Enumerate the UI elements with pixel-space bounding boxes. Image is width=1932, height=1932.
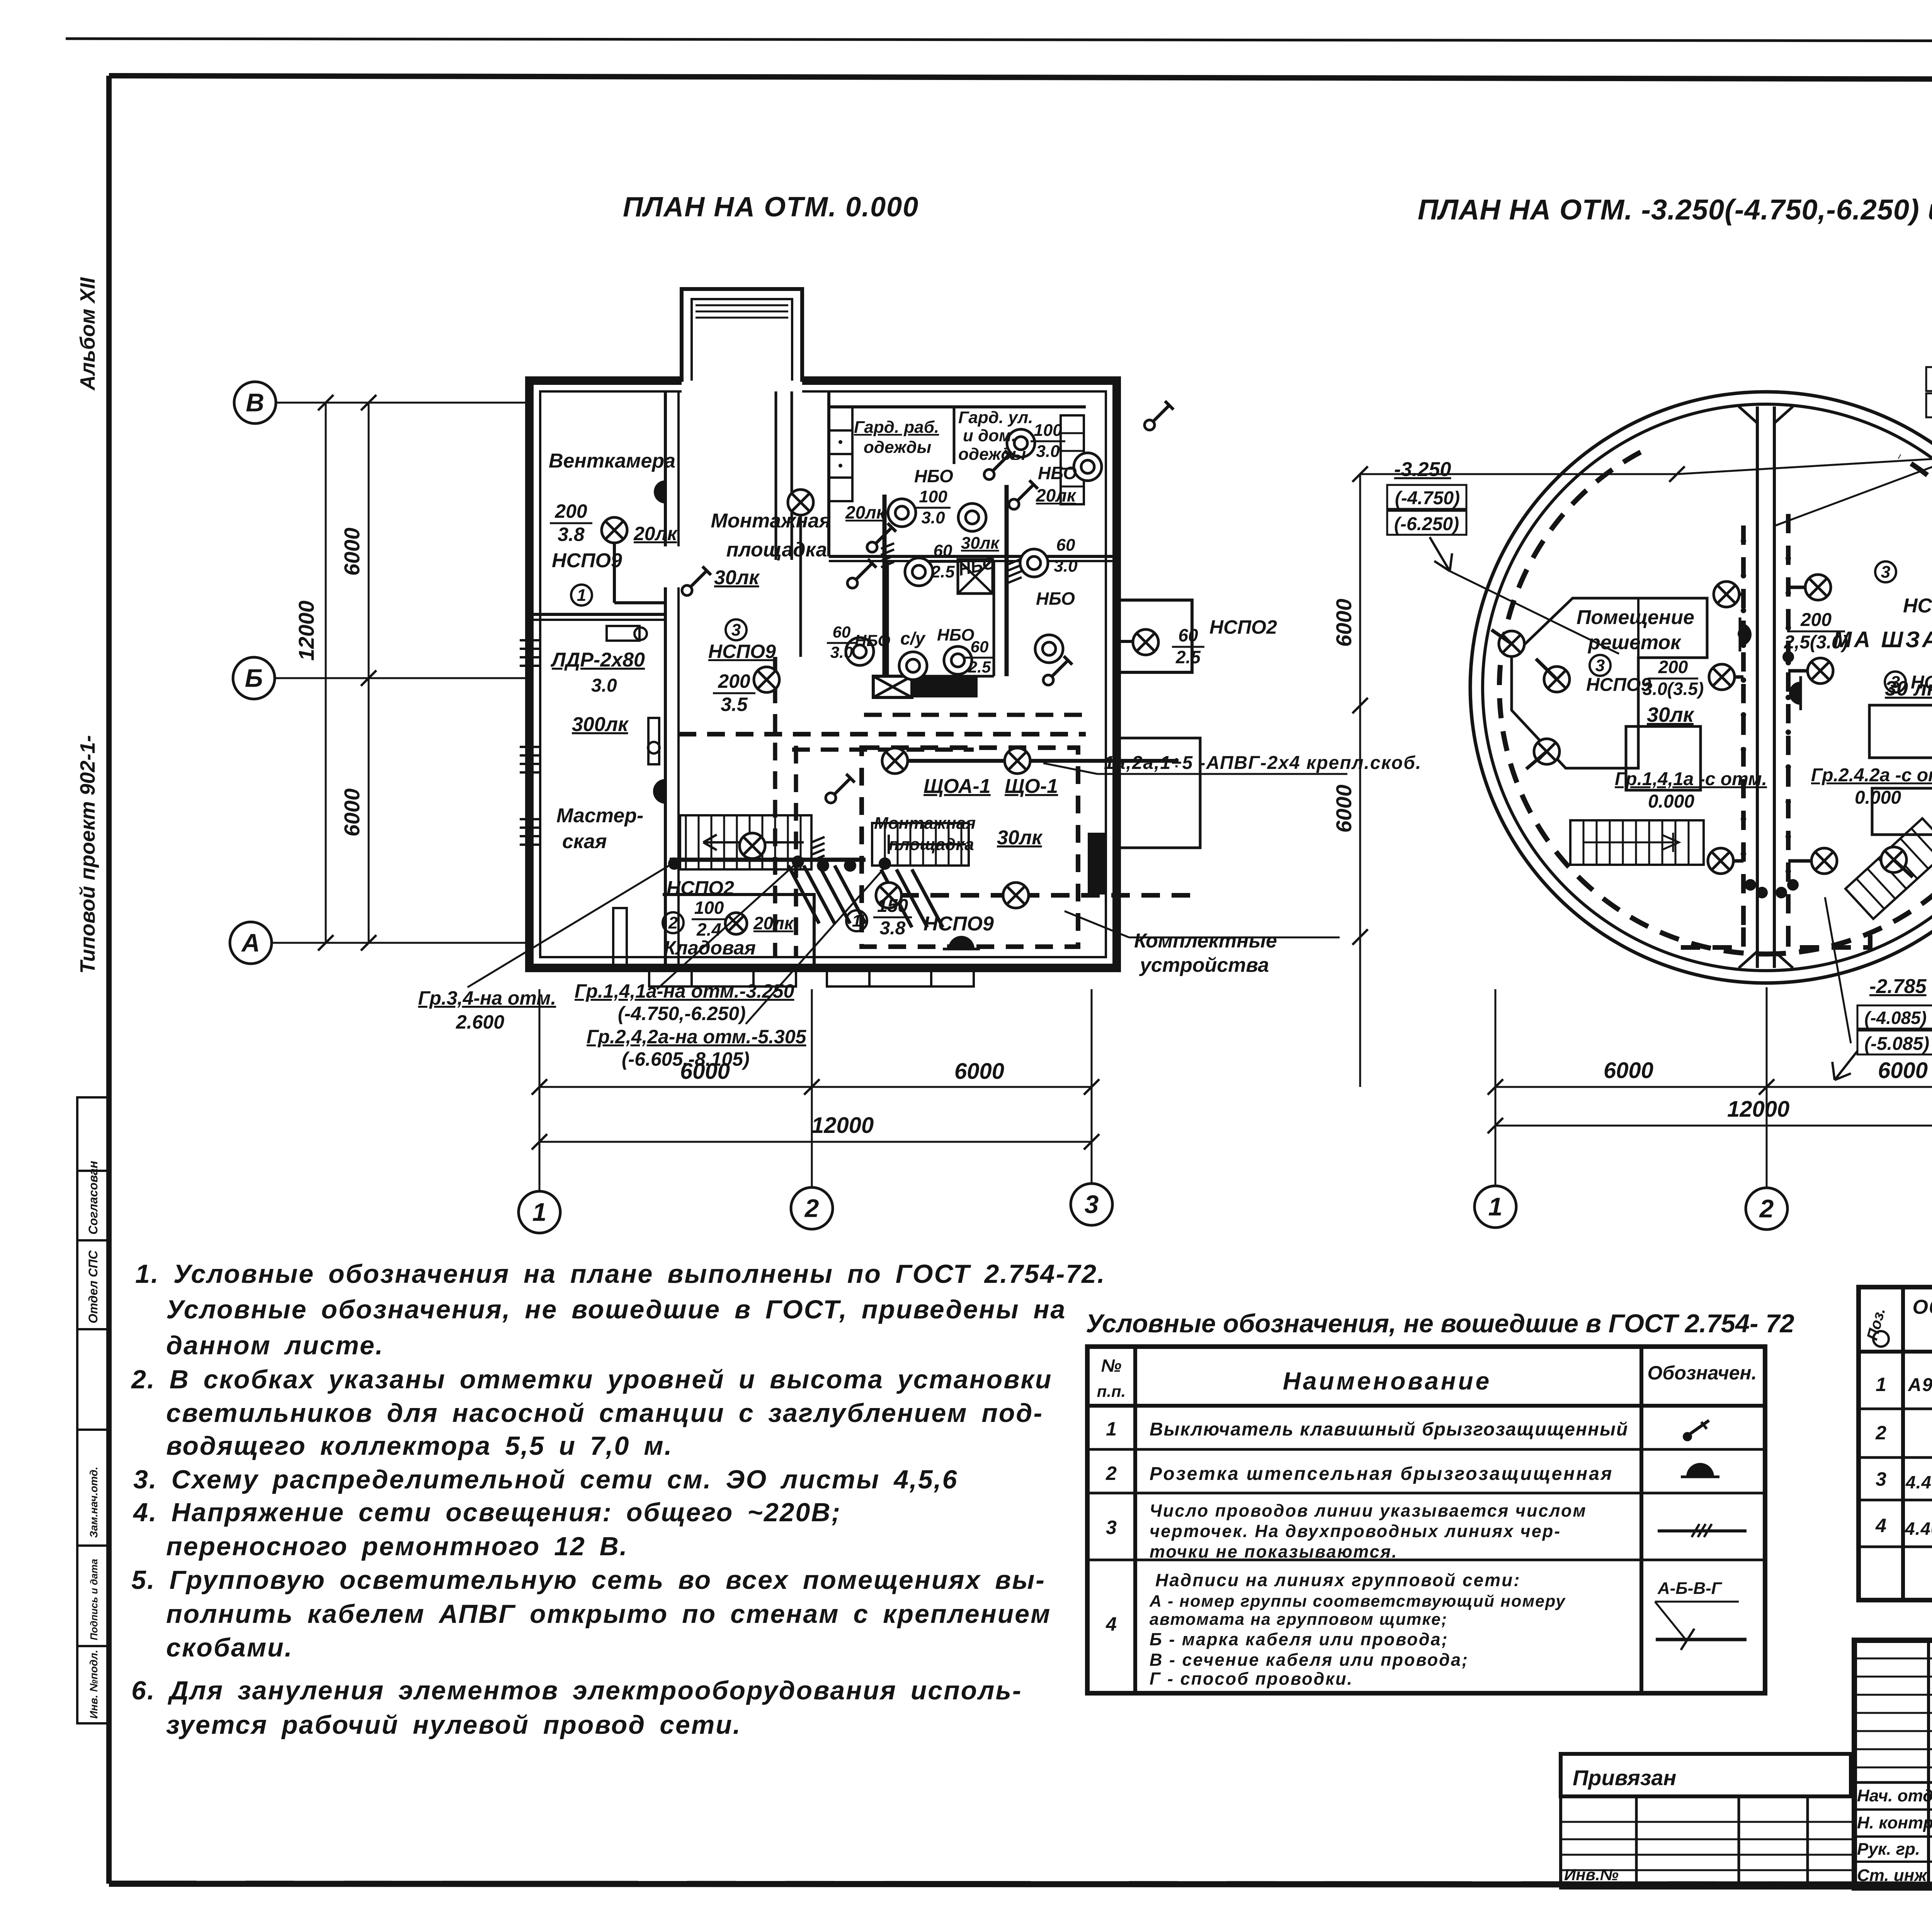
svg-text:150: 150	[877, 896, 908, 916]
svg-text:3: 3	[1595, 656, 1605, 675]
svg-text:1: 1	[577, 586, 586, 605]
svg-text:с/у: с/у	[900, 628, 926, 648]
svg-text:НСПО2: НСПО2	[667, 877, 734, 899]
svg-text:А92.25,26,41исп.2: А92.25,26,41исп.2	[1908, 1375, 1932, 1395]
svg-text:6000: 6000	[1604, 1058, 1653, 1083]
spec table frame	[1859, 1287, 1932, 1600]
svg-text:Согласован: Согласован	[86, 1161, 100, 1235]
privyazan table	[1561, 1796, 1855, 1888]
svg-text:3.0: 3.0	[830, 643, 853, 662]
pos 3 circle	[726, 619, 747, 640]
wall pier right	[1088, 833, 1107, 895]
svg-text:Отдел СПС: Отдел СПС	[86, 1250, 100, 1323]
svg-text:НБО: НБО	[1036, 588, 1075, 609]
svg-text:А: А	[241, 928, 260, 957]
svg-text:Привязан: Привязан	[1573, 1765, 1676, 1790]
socket bottom	[943, 936, 980, 949]
top wall window hatch (vent)	[693, 313, 694, 313]
wire trunk vertical left	[773, 657, 777, 958]
garderob left lockers	[828, 407, 852, 430]
junction dots center	[1745, 879, 1756, 891]
svg-text:3. Схему распределительной с: 3. Схему распределительной сети см. ЭО л…	[133, 1465, 958, 1494]
svg-text:30лк: 30лк	[997, 827, 1043, 849]
svg-text:20лк: 20лк	[633, 523, 678, 544]
heavy dashed ring wiring	[1499, 452, 1766, 954]
svg-text:Условные обозначения, не вошед: Условные обозначения, не вошедшие в ГОСТ…	[1086, 1309, 1794, 1338]
svg-text:6000: 6000	[340, 788, 364, 837]
vertical dim line	[1359, 474, 1361, 1087]
interior wall ventkamera bottom	[529, 613, 665, 616]
bottom porch marks	[649, 968, 796, 986]
svg-text:3: 3	[1876, 1468, 1886, 1490]
svg-text:одежды: одежды	[958, 445, 1026, 464]
right equipment rect B	[1872, 788, 1932, 835]
svg-text:НСПО9: НСПО9	[708, 641, 776, 662]
svg-text:ПЛАН НА ОТМ. -3.250(-4.750,-: ПЛАН НА ОТМ. -3.250(-4.750,-6.250) и-5,3…	[1418, 194, 1932, 226]
machine hall lamps right of wall	[1805, 575, 1831, 600]
sanuzel walls	[886, 561, 889, 676]
svg-text:30 лк: 30 лк	[1885, 677, 1932, 700]
axis 2c	[1746, 1188, 1787, 1230]
signer rows	[1854, 1808, 1932, 1811]
stamp left tall column	[1927, 1640, 1930, 1888]
svg-text:Надписи на линиях групповой: Надписи на линиях групповой сети:	[1155, 1570, 1521, 1590]
svg-text:одежды: одежды	[864, 438, 931, 457]
svg-text:ЩО-1: ЩО-1	[1005, 775, 1058, 798]
lamp schoa	[882, 748, 908, 774]
machine hall lamps left of wall	[1714, 582, 1739, 607]
svg-text:3.5: 3.5	[721, 694, 748, 715]
svg-text:НСПО9: НСПО9	[1903, 595, 1932, 617]
svg-text:Нач. отд: Нач. отд	[1857, 1786, 1932, 1805]
lamp scho	[1005, 748, 1030, 774]
svg-text:2.5: 2.5	[930, 562, 955, 581]
axis 2	[791, 1187, 833, 1229]
privyazan box	[1561, 1754, 1851, 1796]
heavy dashed wall runs	[1741, 526, 1746, 927]
svg-text:светильников для насосной с: светильников для насосной станции с загл…	[166, 1398, 1043, 1428]
outer shell circle	[1470, 392, 1932, 983]
garderob ceiling lamps	[888, 499, 916, 527]
svg-text:площадка: площадка	[726, 539, 827, 561]
svg-text:ПЛАН НА ОТМ. 0.000: ПЛАН НА ОТМ. 0.000	[623, 192, 919, 223]
svg-text:1: 1	[1876, 1374, 1886, 1395]
svg-text:Обозначение или: Обозначение или	[1913, 1296, 1932, 1318]
svg-text:Гард. раб.: Гард. раб.	[854, 418, 939, 437]
bottom axis verticals	[1495, 989, 1497, 1185]
interior wall kladovaya	[663, 895, 814, 968]
svg-text:Гр.1,4,1а -с отм.: Гр.1,4,1а -с отм.	[1615, 769, 1767, 789]
bottom axis verticals	[539, 989, 541, 1191]
tower corridor walls	[775, 391, 777, 560]
svg-text:НСПО2: НСПО2	[1209, 616, 1277, 638]
svg-text:12000: 12000	[1727, 1097, 1789, 1122]
svg-text:3.0(3.5): 3.0(3.5)	[1643, 679, 1704, 699]
svg-text:2. В скобках указаны отметк: 2. В скобках указаны отметки уровней и в…	[131, 1365, 1052, 1394]
svg-text:Н. контр: Н. контр	[1857, 1813, 1932, 1832]
axis 1c	[1475, 1186, 1516, 1228]
svg-text:-3.250: -3.250	[1394, 458, 1451, 481]
frame border left	[106, 76, 112, 1884]
svg-text:Условные обозначения, не воше: Условные обозначения, не вошедшие в ГОСТ…	[166, 1295, 1066, 1324]
top-left horizontal dim	[1360, 473, 1677, 475]
svg-text:(-5.085): (-5.085)	[1864, 1034, 1929, 1054]
tower protrusion walls	[682, 289, 802, 382]
dim line 12000	[1495, 1125, 1932, 1127]
grate room inner tick	[1637, 598, 1639, 658]
svg-text:В: В	[246, 388, 264, 417]
grounding hatches	[881, 543, 894, 567]
svg-text:Мастер-: Мастер-	[556, 804, 643, 827]
group leaders bottom	[468, 864, 672, 987]
svg-text:Типовой проект 902-1-: Типовой проект 902-1-	[76, 735, 99, 974]
svg-text:Ст. инж: Ст. инж	[1857, 1866, 1928, 1885]
equipment rect on wall 1	[607, 626, 639, 641]
spray arrows bottom junction	[788, 866, 819, 923]
legend row lines	[1087, 1448, 1765, 1451]
svg-text:2: 2	[1105, 1463, 1117, 1484]
svg-text:НСПО9: НСПО9	[552, 549, 622, 572]
svg-text:0.000: 0.000	[1648, 791, 1694, 812]
svg-text:устройства: устройства	[1139, 954, 1269, 976]
svg-text:6000: 6000	[954, 1059, 1004, 1084]
garderob left wall	[827, 391, 830, 556]
svg-text:1. Условные обозначения на: 1. Условные обозначения на плане выполне…	[135, 1259, 1106, 1289]
svg-text:1: 1	[1106, 1418, 1117, 1440]
svg-text:Альбом XII: Альбом XII	[76, 277, 99, 391]
svg-text:3.0: 3.0	[1036, 442, 1060, 461]
svg-text:данном листе.: данном листе.	[166, 1331, 384, 1360]
garderob block bottom wall	[829, 555, 1117, 558]
svg-text:(-6.605,-8.105): (-6.605,-8.105)	[622, 1048, 750, 1070]
svg-text:точки не показываются.: точки не показываются.	[1150, 1542, 1398, 1561]
wire trunk horizontal dashed	[864, 713, 1086, 717]
svg-text:3.0: 3.0	[591, 675, 617, 696]
svg-text:3.0: 3.0	[921, 508, 945, 527]
pier rect masterskaya	[613, 908, 627, 967]
grate room polygon	[1512, 598, 1707, 768]
vertical dim lines left	[325, 403, 327, 943]
pos3 + nspo9 + 200/4.0	[1885, 672, 1906, 692]
svg-text:НБО: НБО	[914, 466, 953, 486]
svg-text:ЛДР-2х80: ЛДР-2х80	[550, 649, 645, 671]
svg-text:300лк: 300лк	[572, 713, 629, 736]
axis B1	[233, 657, 275, 699]
interior wall ventkamera right	[664, 391, 667, 546]
lamp nspo9 center	[754, 667, 779, 692]
svg-text:Б: Б	[245, 663, 263, 692]
svg-text:скобами.: скобами.	[166, 1633, 293, 1662]
svg-text:20лк: 20лк	[753, 913, 794, 933]
svg-text:100: 100	[694, 898, 724, 918]
svg-text:200: 200	[554, 500, 587, 522]
svg-text:200: 200	[1800, 610, 1832, 630]
svg-text:Г - способ проводки.: Г - способ проводки.	[1150, 1669, 1353, 1689]
equipment rect on wall 2	[648, 718, 659, 764]
svg-text:Гр.2.4.2а -с отм.: Гр.2.4.2а -с отм.	[1811, 765, 1932, 786]
svg-text:и дом.: и дом.	[963, 426, 1016, 445]
center dividing wall	[1756, 406, 1759, 968]
wire row bottom dashed	[900, 893, 1192, 898]
svg-text:Инв.№: Инв.№	[1564, 1866, 1619, 1884]
svg-text:20лк: 20лк	[845, 502, 886, 522]
axis A	[230, 922, 272, 964]
lamp bottom right	[1003, 883, 1029, 908]
svg-text:В - сечение кабеля или пров: В - сечение кабеля или провода;	[1150, 1650, 1469, 1670]
svg-text:(-4.750): (-4.750)	[1395, 488, 1460, 509]
svg-text:200: 200	[1658, 657, 1688, 677]
svg-text:6. Для зануления элементов: 6. Для зануления элементов электрооборуд…	[131, 1676, 1022, 1705]
svg-text:решеток: решеток	[1587, 631, 1682, 654]
svg-text:4.407-233-001,исп.1: 4.407-233-001,исп.1	[1905, 1519, 1932, 1539]
svg-text:Зам.нач.отд.: Зам.нач.отд.	[88, 1467, 100, 1538]
svg-text:100: 100	[919, 487, 947, 506]
svg-text:4: 4	[1105, 1613, 1117, 1635]
svg-text:5. Групповую осветительную с: 5. Групповую осветительную сеть во всех …	[131, 1565, 1046, 1595]
panel assembly bus	[873, 676, 912, 697]
svg-text:Подпись и дата: Подпись и дата	[88, 1559, 100, 1640]
svg-text:1: 1	[532, 1197, 547, 1226]
lamp bottom left	[876, 883, 901, 908]
svg-text:№: №	[1101, 1355, 1122, 1376]
lamp stair	[740, 833, 765, 859]
lamp montage top	[788, 490, 813, 515]
svg-text:(-6.250): (-6.250)	[1394, 514, 1459, 534]
svg-text:МА ШЗАЛ: МА ШЗАЛ	[1833, 627, 1932, 652]
svg-text:полнить кабелем АПВГ открыт: полнить кабелем АПВГ открыто по стенам с…	[166, 1599, 1051, 1629]
svg-text:НСПО9: НСПО9	[1586, 675, 1651, 695]
axis 1	[519, 1191, 560, 1233]
svg-text:Гард. ул.: Гард. ул.	[958, 408, 1033, 427]
leader komplekt	[1065, 911, 1129, 937]
duct shaft crossed box	[958, 560, 993, 594]
svg-text:Розетка штепсельная брызгозащ: Розетка штепсельная брызгозащищенная	[1150, 1464, 1613, 1484]
legend symbol switch	[1683, 1420, 1709, 1441]
svg-text:Венткамера: Венткамера	[549, 450, 675, 472]
svg-text:Б - марка кабеля или провод: Б - марка кабеля или провода;	[1150, 1629, 1449, 1649]
svg-text:зуется рабочий нулевой пров: зуется рабочий нулевой провод сети.	[166, 1710, 742, 1740]
switches	[682, 566, 711, 595]
svg-text:Гр.1,4,1а-на отм.-3.250: Гр.1,4,1а-на отм.-3.250	[575, 980, 794, 1002]
pos 1 circle	[571, 585, 592, 605]
spec col pos	[1901, 1287, 1905, 1600]
left stair	[1570, 820, 1704, 865]
wire riser garderob right	[1005, 485, 1009, 676]
pos2+frac bottom	[663, 912, 684, 933]
svg-text:4.407-233-001,исп.1: 4.407-233-001,исп.1	[1905, 1472, 1932, 1492]
perimeter lamps	[1544, 667, 1570, 692]
pos3 + nspo9 + 200/3.0(3.5) left	[1590, 655, 1611, 676]
inner wall face	[540, 391, 1106, 957]
frame border bottom	[109, 1884, 1932, 1885]
svg-text:2.5: 2.5	[968, 658, 991, 676]
svg-text:2.600: 2.600	[456, 1011, 504, 1033]
svg-text:6000: 6000	[1332, 599, 1356, 647]
svg-text:3: 3	[1106, 1517, 1117, 1538]
svg-text:4. Напряжение сети освещения: 4. Напряжение сети освещения: общего ~22…	[133, 1498, 841, 1527]
inner shell circle	[1483, 404, 1932, 971]
svg-text:4: 4	[1875, 1515, 1886, 1536]
socket ventkamera	[654, 475, 665, 509]
svg-text:12000: 12000	[294, 600, 318, 661]
svg-text:6000: 6000	[1332, 784, 1356, 833]
stair flight	[680, 815, 811, 869]
junction cluster bottom center	[668, 857, 680, 870]
svg-text:переносного ремонтного 12: переносного ремонтного 12 В.	[166, 1532, 628, 1561]
svg-text:2.4: 2.4	[696, 919, 721, 939]
garderob right locker band	[1061, 415, 1084, 504]
svg-text:0.000: 0.000	[1855, 787, 1901, 808]
svg-text:3: 3	[731, 621, 741, 639]
dim line 6000 6000	[1495, 1086, 1932, 1088]
svg-text:100: 100	[1034, 421, 1062, 440]
socket domes	[1740, 617, 1752, 651]
right equipment rect A	[1869, 705, 1932, 758]
wire row lamps sholk	[908, 759, 1179, 763]
svg-text:Инв. №подл.: Инв. №подл.	[88, 1650, 100, 1719]
tower inner lines	[692, 299, 792, 381]
svg-text:60: 60	[1178, 625, 1198, 645]
svg-text:ская: ская	[562, 830, 607, 853]
svg-text:водящего коллектора 5,5 и: водящего коллектора 5,5 и 7,0 м.	[166, 1431, 673, 1461]
svg-text:Наименование: Наименование	[1283, 1367, 1492, 1395]
svg-text:60: 60	[971, 638, 989, 656]
montage area dashed rect	[862, 748, 1078, 947]
lamp annex right	[1117, 640, 1133, 643]
svg-text:3: 3	[1085, 1190, 1099, 1218]
garderob divider	[953, 407, 956, 464]
svg-text:Комплектные: Комплектные	[1134, 930, 1277, 952]
svg-text:черточек. На двухпроводных л: черточек. На двухпроводных линиях чер-	[1150, 1521, 1561, 1541]
komplekt ustroystva annex outline	[1117, 738, 1200, 848]
right diagonal stair	[1845, 818, 1932, 919]
svg-text:30лк: 30лк	[714, 566, 760, 589]
svg-text:2: 2	[1875, 1422, 1886, 1444]
legend col line 1	[1133, 1347, 1137, 1693]
dim line 6000 6000	[539, 1086, 1092, 1088]
svg-text:60: 60	[1056, 536, 1075, 554]
svg-text:2.5: 2.5	[1175, 647, 1201, 667]
legend symbol socket	[1681, 1463, 1719, 1477]
svg-text:6000: 6000	[1878, 1058, 1928, 1083]
wire riser garderob left	[883, 495, 887, 676]
svg-text:60: 60	[833, 623, 851, 641]
svg-text:1а,2а,1÷5 -АПВГ-2х4 крепл.скоб: 1а,2а,1÷5 -АПВГ-2х4 крепл.скоб.	[1104, 753, 1422, 773]
svg-text:НБО: НБО	[855, 631, 890, 650]
leader cable note	[1043, 763, 1097, 774]
svg-text:(-4.085): (-4.085)	[1864, 1008, 1927, 1028]
svg-text:200: 200	[718, 670, 750, 692]
svg-text:п.п.: п.п.	[1097, 1382, 1126, 1400]
svg-text:площадка: площадка	[889, 835, 974, 854]
dim line 12000	[539, 1141, 1092, 1143]
svg-text:3.0: 3.0	[1054, 556, 1078, 575]
axis 3	[1071, 1184, 1112, 1225]
legend symbol wire ticks	[1658, 1529, 1747, 1532]
svg-text:Монтажная: Монтажная	[874, 814, 976, 833]
stamp small rows top	[1854, 1658, 1932, 1660]
montage stair hatch	[872, 823, 969, 866]
svg-text:-2.785: -2.785	[1869, 975, 1927, 998]
svg-text:6000: 6000	[340, 527, 364, 576]
svg-text:ЩОА-1: ЩОА-1	[923, 775, 991, 798]
svg-text:Рук. гр.: Рук. гр.	[1857, 1840, 1920, 1859]
pos1 150/3.8 nspo9	[846, 910, 867, 931]
svg-text:12000: 12000	[811, 1113, 874, 1138]
axis B2	[234, 382, 276, 423]
svg-text:Обозначен.: Обозначен.	[1647, 1362, 1757, 1384]
heavy wire along stair	[670, 858, 866, 862]
svg-text:Монтажная: Монтажная	[711, 510, 831, 532]
svg-text:НБО: НБО	[1038, 463, 1077, 483]
pos3 top	[1875, 561, 1896, 582]
svg-text:20лк: 20лк	[1036, 485, 1077, 505]
svg-text:Выключатель клавишный брызго: Выключатель клавишный брызгозащищенный	[1150, 1419, 1628, 1440]
socket masterskaya	[653, 774, 665, 809]
frame border top	[109, 76, 1932, 80]
top-right annex (sanuzel block)	[1117, 600, 1192, 672]
svg-text:НСПО9: НСПО9	[923, 913, 994, 935]
left row axis lines	[276, 402, 529, 404]
stamp outer frame	[1854, 1640, 1932, 1888]
lamp sanuzel right	[1133, 629, 1158, 655]
svg-text:3: 3	[1881, 563, 1890, 582]
svg-text:Число проводов линии указывае: Число проводов линии указывается числом	[1150, 1501, 1587, 1520]
svg-text:2: 2	[668, 913, 678, 932]
svg-text:2: 2	[804, 1194, 819, 1222]
svg-text:3.8: 3.8	[880, 918, 906, 939]
svg-text:Гр.2,4,2а-на отм.-5.305: Гр.2,4,2а-на отм.-5.305	[587, 1026, 807, 1048]
garderob block top wall	[829, 405, 1086, 408]
legend table frame	[1087, 1347, 1765, 1693]
wire dots along wall	[1741, 538, 1746, 544]
svg-text:(-4.750,-6.250): (-4.750,-6.250)	[618, 1003, 746, 1024]
svg-text:1: 1	[852, 912, 861, 930]
svg-text:2: 2	[1759, 1194, 1774, 1223]
svg-text:30лк: 30лк	[1647, 703, 1695, 726]
svg-text:автомата на групповом щитке;: автомата на групповом щитке;	[1150, 1610, 1447, 1629]
sheet outer edge top	[66, 39, 1932, 42]
svg-text:1: 1	[1488, 1192, 1503, 1221]
left equipment rect	[1626, 726, 1701, 790]
legend header row line	[1087, 1404, 1765, 1408]
lamp ventkamera	[602, 517, 627, 543]
exterior wall outline	[529, 381, 1117, 968]
spec header line	[1859, 1350, 1932, 1354]
svg-text:30лк: 30лк	[961, 534, 1000, 553]
left margin stamp strip	[77, 1097, 109, 1723]
svg-text:А-Б-В-Г: А-Б-В-Г	[1657, 1579, 1723, 1598]
spec row lines	[1859, 1408, 1932, 1410]
legend col line 2	[1639, 1347, 1643, 1693]
svg-text:3.8: 3.8	[558, 524, 585, 545]
svg-text:Гр.3,4-на отм.: Гр.3,4-на отм.	[418, 987, 556, 1009]
svg-text:НБО: НБО	[937, 626, 975, 645]
left wall window hatches	[520, 639, 541, 641]
svg-text:60: 60	[934, 541, 952, 560]
svg-text:А - номер группы соответствующ: А - номер группы соответствующий номеру	[1149, 1592, 1566, 1611]
svg-text:Помещение: Помещение	[1577, 606, 1694, 629]
